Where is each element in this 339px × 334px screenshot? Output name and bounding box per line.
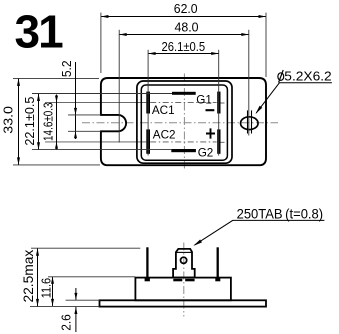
dimension 48.0 bbox=[119, 19, 249, 142]
dimension 5.2 (slot width, outside arrows) bbox=[59, 60, 101, 139]
svg-text:G1: G1 bbox=[196, 94, 212, 107]
svg-text:11.6: 11.6 bbox=[39, 278, 54, 298]
lid outer outline bbox=[137, 81, 232, 163]
centerline vertical (side view) bbox=[183, 243, 185, 317]
tab hole bbox=[181, 257, 187, 263]
svg-text:62.0: 62.0 bbox=[174, 1, 198, 16]
pin G1 bar bbox=[172, 92, 196, 95]
pin AC1 bar bbox=[146, 92, 150, 114]
svg-text:33.0: 33.0 bbox=[1, 106, 16, 134]
svg-text:31: 31 bbox=[15, 6, 64, 58]
pin left (side view) bbox=[146, 247, 148, 277]
svg-text:26.1±0.5: 26.1±0.5 bbox=[161, 39, 205, 54]
dimension 2.6 (outside arrows) bbox=[59, 288, 100, 332]
pin right (side view) bbox=[217, 247, 219, 277]
centerline horizontal (top view) bbox=[82, 122, 278, 124]
tab fold line bbox=[176, 251, 192, 253]
pin AC2 bar bbox=[146, 129, 150, 153]
body outline top view with mounting slot bbox=[101, 78, 266, 165]
pin G2 bar bbox=[171, 149, 196, 152]
polarity minus bbox=[206, 109, 215, 111]
dimension 33.0 bbox=[1, 78, 100, 164]
pin row line upper bbox=[45, 102, 225, 104]
label 250TAB with leader bbox=[193, 205, 324, 246]
svg-text:AC1: AC1 bbox=[152, 104, 175, 117]
svg-text:48.0: 48.0 bbox=[174, 19, 198, 34]
pin minus bar bbox=[217, 92, 220, 114]
svg-text:2.6: 2.6 bbox=[59, 314, 74, 331]
centerline vertical (top view) bbox=[183, 74, 185, 171]
svg-text:250TAB (t=0.8): 250TAB (t=0.8) bbox=[237, 205, 324, 221]
dimension 62.0 bbox=[101, 1, 266, 77]
svg-text:5.2: 5.2 bbox=[59, 60, 74, 77]
pin row line lower bbox=[45, 141, 225, 143]
phi symbol bbox=[278, 73, 284, 81]
dimension 14.6±0.3 (outside arrows) bbox=[42, 95, 58, 150]
dimension 22.5max bbox=[20, 248, 140, 306]
dimension 26.1±0.5 bbox=[148, 39, 219, 156]
dimension 22.1±0.5 bbox=[22, 94, 172, 150]
dimension φ5.2×6.2 with leader bbox=[256, 68, 332, 114]
svg-text:AC2: AC2 bbox=[153, 129, 176, 142]
svg-text:22.1±0.5: 22.1±0.5 bbox=[22, 97, 37, 146]
polarity plus bbox=[206, 128, 215, 138]
svg-text:22.5max: 22.5max bbox=[20, 250, 36, 303]
tab base bars bbox=[173, 279, 182, 282]
lid inner outline bbox=[141, 85, 227, 160]
svg-text:14.6±0.3: 14.6±0.3 bbox=[42, 102, 56, 141]
baseplate bbox=[100, 300, 267, 306]
dimension 11.6 bbox=[39, 277, 136, 306]
case body side view bbox=[135, 278, 231, 301]
tab terminal outline bbox=[173, 249, 195, 278]
svg-text:5.2X6.2: 5.2X6.2 bbox=[284, 68, 331, 83]
pin plus bar bbox=[217, 129, 220, 153]
svg-text:G2: G2 bbox=[198, 147, 214, 160]
mounting hole oblong bbox=[241, 117, 258, 130]
